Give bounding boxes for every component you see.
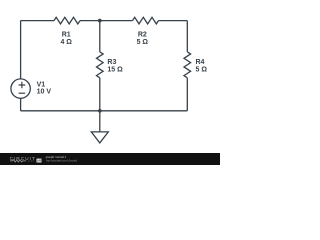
wire R3 bottom lead xyxy=(99,78,101,111)
resistor R2 xyxy=(133,17,159,24)
svg-text:R1: R1 xyxy=(62,31,71,38)
svg-text:LAB: LAB xyxy=(37,160,42,163)
wire bottom xyxy=(21,110,188,112)
wire top-right segment xyxy=(159,20,188,22)
svg-text:4 Ω: 4 Ω xyxy=(60,39,72,46)
wire left rail lower xyxy=(20,98,22,111)
svg-text:R2: R2 xyxy=(138,31,147,38)
svg-text:15 Ω: 15 Ω xyxy=(107,67,123,74)
watermark bar xyxy=(0,153,220,165)
svg-text:5 Ω: 5 Ω xyxy=(196,67,208,74)
svg-text:V1: V1 xyxy=(37,82,46,89)
wire top-left segment xyxy=(21,20,54,22)
wire R4 top lead xyxy=(186,21,188,52)
svg-text:R4: R4 xyxy=(196,59,205,66)
ground xyxy=(91,111,108,143)
svg-text:R3: R3 xyxy=(107,59,116,66)
resistor R3 xyxy=(97,52,104,78)
node junction bottom xyxy=(98,109,102,113)
wire R4 bottom lead xyxy=(186,78,188,111)
CircuitLab logo xyxy=(10,156,43,163)
wire left rail upper xyxy=(20,21,22,79)
svg-text:CUIT: CUIT xyxy=(28,159,35,163)
voltage source V1 xyxy=(11,79,30,98)
resistor R4 xyxy=(184,52,191,78)
svg-text:10 V: 10 V xyxy=(37,89,52,96)
wire R3 top lead xyxy=(99,21,101,52)
svg-text:http://circuitlab.com/c2zqnbd: http://circuitlab.com/c2zqnbd xyxy=(46,159,78,163)
svg-text:5 Ω: 5 Ω xyxy=(137,39,149,46)
resistor R1 xyxy=(54,17,80,24)
wire top-middle segment xyxy=(80,20,133,22)
node junction top xyxy=(98,19,102,23)
